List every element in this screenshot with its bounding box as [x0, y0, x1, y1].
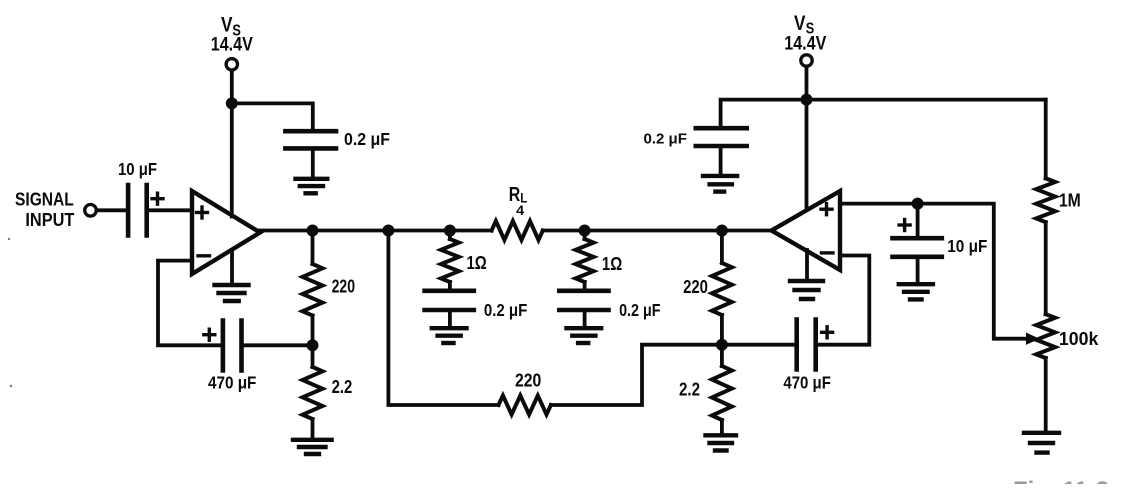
wire C5 to ground — [583, 312, 587, 327]
capacitor C5 0.2uF — [559, 288, 608, 293]
node B junction — [307, 225, 319, 237]
ground under C5 — [567, 326, 602, 330]
wire U2 plus input to pot wiper — [841, 204, 1026, 339]
plus sign U1 — [197, 211, 208, 214]
resistor R6 220 — [720, 231, 724, 264]
ground under U1 — [215, 283, 249, 287]
svg-text:Fig. 11-3: Fig. 11-3 — [1013, 477, 1109, 484]
ground under C7 — [703, 174, 737, 178]
label VS left — [211, 14, 253, 56]
ground under C4 — [432, 326, 467, 330]
node I junction — [801, 94, 813, 106]
wire R8 to pot — [1044, 222, 1048, 314]
wire VS1 vertical — [230, 71, 234, 217]
svg-text:0.2 μF: 0.2 μF — [644, 131, 687, 148]
wire C7 to ground — [719, 148, 723, 175]
node H junction — [716, 339, 728, 351]
label VS right — [784, 12, 826, 55]
wire C2 to ground — [311, 150, 315, 177]
terminal VS left — [226, 59, 237, 70]
svg-text:10 μF: 10 μF — [118, 159, 157, 179]
wire U1 ground stem — [230, 250, 234, 284]
wire C4 to ground — [448, 312, 452, 327]
plus sign C8 — [899, 223, 910, 226]
plus sign C1 — [152, 197, 163, 200]
svg-text:2.2: 2.2 — [679, 380, 700, 400]
ground under R7 — [706, 433, 737, 437]
caption fragment Fig (cropped) — [1013, 477, 1109, 489]
ground under C2 — [296, 177, 328, 181]
wire feedback U1 — [158, 261, 221, 346]
svg-text:4: 4 — [516, 202, 524, 218]
plus sign C3 — [204, 333, 215, 336]
svg-text:2.2: 2.2 — [332, 377, 353, 397]
svg-text:1M: 1M — [1059, 191, 1081, 211]
wire node H to C6 — [722, 343, 795, 347]
resistor R7 2.2 — [720, 345, 724, 366]
capacitor C1 10uF — [126, 185, 131, 236]
wire input to C1 — [97, 208, 127, 212]
resistor R5 220 bottom — [499, 396, 551, 415]
node: SIGNAL INPUT label — [15, 189, 74, 229]
capacitor C8 10uF — [916, 204, 920, 237]
capacitor C2 0.2uF — [285, 129, 336, 134]
node J junction — [912, 198, 924, 210]
svg-text:14.4V: 14.4V — [211, 34, 253, 55]
node C junction — [382, 225, 394, 237]
resistor R3 1 ohm — [448, 231, 452, 240]
resistor R8 1M — [1044, 100, 1048, 179]
svg-text:V: V — [221, 14, 233, 37]
svg-text:220: 220 — [515, 371, 541, 391]
minus sign U1 — [198, 254, 210, 257]
potentiometer R9 100k — [1036, 314, 1055, 358]
svg-text:14.4V: 14.4V — [784, 34, 826, 55]
capacitor C3 470uF — [221, 321, 226, 371]
main output rail — [258, 229, 492, 233]
plus sign C6 — [822, 331, 833, 334]
ground under R9 — [1024, 431, 1059, 435]
capacitor C7 0.2uF — [696, 126, 747, 131]
speck left 1 — [8, 238, 10, 240]
resistor R2 2.2 — [311, 345, 315, 367]
node E junction — [579, 225, 591, 237]
wire node C down to bottom rail — [388, 231, 498, 406]
svg-text:1Ω: 1Ω — [467, 253, 487, 273]
speck left 2 — [10, 385, 12, 387]
svg-text:0.2 μF: 0.2 μF — [344, 129, 390, 149]
resistor R1 220 — [311, 231, 315, 265]
capacitor C4 0.2uF — [425, 288, 474, 293]
svg-text:220: 220 — [332, 276, 355, 296]
node F junction — [716, 225, 728, 237]
svg-text:470 μF: 470 μF — [783, 373, 831, 393]
wire pot to ground — [1044, 358, 1048, 431]
node D junction — [444, 225, 456, 237]
svg-text:1Ω: 1Ω — [602, 254, 622, 274]
svg-text:0.2 μF: 0.2 μF — [484, 300, 528, 320]
op-amp U2 — [772, 191, 841, 270]
ground under R2 — [293, 438, 332, 442]
wire C1 to op-amp U1 — [149, 208, 193, 212]
op-amp U1 — [192, 191, 260, 274]
svg-text:SIGNAL: SIGNAL — [15, 189, 74, 209]
resistor R4 1 ohm — [583, 231, 587, 240]
node G junction — [307, 339, 319, 351]
svg-text:10 μF: 10 μF — [947, 236, 987, 256]
ground under C8 — [899, 282, 933, 286]
svg-text:0.2 μF: 0.2 μF — [619, 300, 661, 320]
ground under U2 — [790, 279, 823, 283]
wire C3 to node G — [243, 343, 313, 347]
svg-text:470 μF: 470 μF — [208, 372, 257, 392]
wire node A to C2 — [232, 103, 313, 129]
terminal VS right — [801, 55, 812, 66]
wire U2 ground stem — [805, 250, 809, 280]
svg-text:V: V — [794, 12, 806, 35]
wire VS2 vertical — [805, 67, 809, 210]
wiper arrow head — [1026, 333, 1040, 345]
wire top rail right — [721, 100, 1046, 128]
plus sign U2 — [821, 207, 832, 210]
capacitor C6 470uF — [794, 320, 799, 370]
wire bottom rail to node H — [551, 345, 722, 405]
svg-text:INPUT: INPUT — [25, 210, 74, 230]
minus sign U2 — [822, 251, 834, 254]
wire C8 to ground — [916, 258, 920, 282]
svg-text:100k: 100k — [1059, 329, 1099, 349]
wire C6 to U2 minus input — [817, 256, 869, 345]
node A junction — [226, 97, 238, 109]
resistor RL 4 — [492, 221, 543, 240]
terminal: signal input — [85, 205, 97, 217]
svg-text:220: 220 — [683, 277, 708, 297]
